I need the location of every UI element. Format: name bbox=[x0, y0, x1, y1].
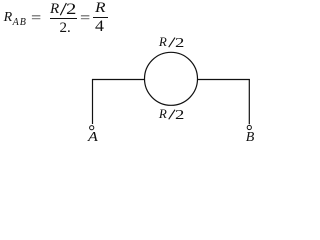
bottom label digit 2 bbox=[175, 109, 182, 123]
node label A bbox=[88, 131, 97, 145]
wire right horizontal bbox=[198, 79, 250, 81]
top label letter R bbox=[159, 35, 167, 48]
fraction 1 numerator R bbox=[50, 2, 59, 17]
node label B bbox=[246, 131, 255, 145]
wire right vertical bbox=[248, 79, 250, 124]
fraction 2 numerator R bbox=[95, 1, 104, 16]
top label digit 2 bbox=[175, 37, 182, 51]
terminal A open circle bbox=[90, 126, 94, 130]
resistor loop circle (two parallel R/2) bbox=[145, 52, 198, 105]
wire left horizontal bbox=[92, 79, 145, 81]
equals sign 1 bbox=[31, 12, 39, 26]
variable R of R_AB bbox=[4, 11, 13, 25]
fraction 2 denominator 4 bbox=[95, 19, 103, 35]
slash of top label R/2 bbox=[169, 38, 175, 48]
fraction 1 numerator digit 2 bbox=[66, 2, 74, 18]
fraction bar 2 bbox=[93, 17, 108, 18]
fraction bar 1 bbox=[50, 18, 78, 19]
bottom label letter R bbox=[159, 107, 167, 120]
terminal B open circle bbox=[247, 125, 251, 129]
slash of bottom label R/2 bbox=[169, 110, 175, 120]
circuit drawing bbox=[0, 0, 261, 149]
slash of numerator R/2 bbox=[60, 3, 66, 15]
wire left vertical bbox=[92, 79, 94, 124]
fraction 1 denominator 2. bbox=[60, 21, 71, 36]
equals sign 2 bbox=[80, 12, 88, 26]
subscript AB bbox=[13, 18, 27, 28]
